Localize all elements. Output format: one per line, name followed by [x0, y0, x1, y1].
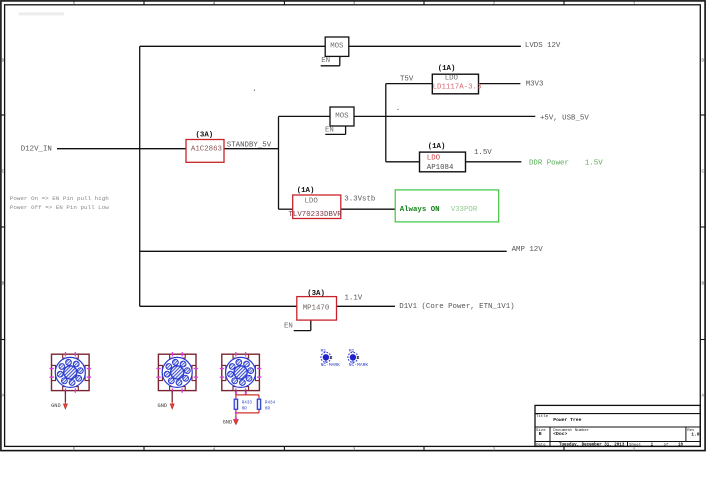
svg-text:R434: R434 [265, 401, 276, 406]
svg-text:MOS: MOS [330, 43, 344, 51]
svg-text:GND: GND [223, 419, 233, 425]
svg-text:AMP 12V: AMP 12V [512, 246, 544, 254]
svg-text:A: A [702, 395, 705, 399]
svg-text:(1A): (1A) [297, 187, 315, 195]
svg-text:Power Off => EN Pin pull Low: Power Off => EN Pin pull Low [10, 204, 109, 211]
svg-text:GND: GND [158, 403, 168, 409]
svg-text:DDR Power: DDR Power [529, 159, 569, 167]
svg-text:M2: M2 [349, 348, 355, 354]
svg-text:Power On => EN Pin pull high: Power On => EN Pin pull high [10, 195, 109, 202]
svg-text:(1A): (1A) [428, 143, 446, 151]
svg-text:B: B [702, 283, 705, 287]
svg-text:D12V_IN: D12V_IN [21, 145, 52, 153]
svg-text:EN: EN [284, 323, 293, 331]
svg-text:NC-MARK: NC-MARK [349, 362, 369, 368]
svg-text:1.0: 1.0 [691, 431, 700, 437]
svg-text:MOS: MOS [335, 113, 349, 121]
svg-text:Title: Title [536, 414, 549, 419]
svg-text:B: B [539, 431, 542, 437]
svg-text:1.5V: 1.5V [585, 159, 603, 167]
svg-text:GND: GND [51, 403, 61, 409]
svg-text:10: 10 [678, 444, 684, 448]
svg-text:of: of [664, 442, 669, 447]
svg-text:Tuesday, December 31, 2013: Tuesday, December 31, 2013 [559, 443, 625, 448]
svg-text:R433: R433 [242, 401, 253, 406]
svg-text:EN: EN [321, 57, 330, 65]
svg-text:1.1V: 1.1V [345, 295, 363, 303]
svg-text:0R: 0R [242, 406, 248, 411]
svg-text:M1: M1 [321, 348, 327, 354]
svg-text:V33POR: V33POR [451, 206, 478, 214]
svg-text:LDO: LDO [445, 75, 459, 83]
svg-text:T5V: T5V [400, 76, 414, 84]
svg-text:LVDS 12V: LVDS 12V [525, 42, 561, 50]
svg-text:TLV70233DBVR: TLV70233DBVR [289, 211, 343, 219]
svg-text:C: C [702, 171, 705, 175]
svg-text:AP1084: AP1084 [427, 164, 454, 172]
svg-text:Date: Date [536, 443, 546, 447]
svg-text:3.3Vstb: 3.3Vstb [344, 196, 375, 204]
svg-text:1.5V: 1.5V [474, 149, 492, 157]
svg-text:D: D [702, 60, 705, 64]
svg-text:Sheet: Sheet [629, 442, 641, 447]
svg-text:STANDBY_5V: STANDBY_5V [227, 142, 272, 150]
svg-text:LDO: LDO [305, 197, 319, 205]
svg-text:Always ON: Always ON [400, 206, 440, 214]
svg-text:0R: 0R [265, 406, 271, 411]
svg-text:EN: EN [325, 126, 334, 134]
svg-text:<Doc>: <Doc> [553, 431, 567, 437]
svg-text:MP1470: MP1470 [303, 304, 330, 312]
svg-text:Power Tree: Power Tree [553, 417, 581, 423]
svg-text:NC-MARK: NC-MARK [321, 362, 341, 368]
svg-text:D1V1 (Core Power, ETN_1V1): D1V1 (Core Power, ETN_1V1) [399, 303, 514, 311]
svg-text:A1C2863: A1C2863 [191, 145, 222, 153]
svg-text:LDO: LDO [427, 154, 441, 162]
svg-text:(3A): (3A) [196, 131, 214, 139]
svg-text:(1A): (1A) [438, 65, 456, 73]
svg-text:+5V, USB_5V: +5V, USB_5V [540, 114, 589, 122]
svg-text:(3A): (3A) [307, 290, 325, 298]
svg-text:LD1117A-3.3: LD1117A-3.3 [433, 83, 482, 91]
svg-text:M3V3: M3V3 [526, 80, 544, 88]
